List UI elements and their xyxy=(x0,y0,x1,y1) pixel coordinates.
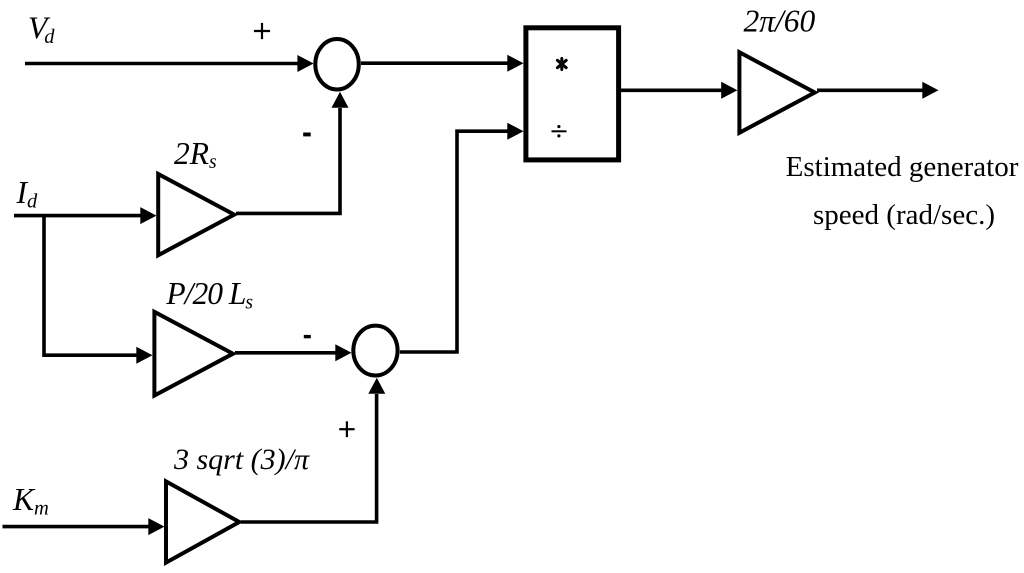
wire Id input xyxy=(14,214,141,218)
arrowhead into S1 xyxy=(297,55,313,72)
svg-text:3 sqrt (3)/π: 3 sqrt (3)/π xyxy=(173,443,310,476)
svg-text:2π/60: 2π/60 xyxy=(744,4,816,39)
plus sign at S2 xyxy=(339,421,354,437)
minus sign at S1 xyxy=(303,133,311,137)
gain triangle 2pi/60 xyxy=(739,52,814,133)
wire P/20Ls to summing junction S2 xyxy=(235,351,336,355)
wire S2 to box divide input xyxy=(400,131,508,352)
wire Vd to summing junction S1 xyxy=(25,62,299,66)
arrowhead into gain 2pi/60 xyxy=(721,82,737,99)
wire S1 to multiplier box xyxy=(361,61,508,65)
wire box to gain 2pi/60 xyxy=(621,89,722,93)
summing junction S2 xyxy=(353,326,397,376)
arrowhead into S2 xyxy=(335,344,351,361)
wire output xyxy=(817,89,923,93)
arrowhead output end xyxy=(922,82,938,99)
gain triangle P/20Ls xyxy=(154,312,233,396)
multiplier-divider box xyxy=(526,28,619,160)
arrowhead into S1 bottom xyxy=(332,92,349,108)
arrowhead into S2 bottom xyxy=(368,378,385,394)
asterisk symbol in box xyxy=(557,59,566,70)
svg-text:Estimated generator: Estimated generator xyxy=(786,151,1019,183)
gain triangle 3sqrt3/pi xyxy=(166,481,239,562)
minus sign at S2 xyxy=(304,335,311,338)
plus sign at S1 xyxy=(254,23,270,39)
svg-text:P/20 Ls: P/20 Ls xyxy=(165,276,253,313)
arrowhead into gain P/20Ls xyxy=(136,347,152,364)
summing junction S1 xyxy=(315,39,359,90)
wire 3sqrt3/pi output up to S2 xyxy=(241,394,377,522)
wire Km xyxy=(3,525,149,529)
wire 2Rs output up to S1 xyxy=(236,108,340,213)
arrowhead into box divide input xyxy=(507,123,523,140)
svg-text:speed (rad/sec.): speed (rad/sec.) xyxy=(813,199,995,231)
arrowhead into gain 3sqrt3/pi xyxy=(148,518,164,535)
arrowhead into gain 2Rs xyxy=(140,207,156,224)
arrowhead into box * input xyxy=(507,55,523,72)
divide symbol in box xyxy=(552,125,567,137)
gain triangle 2Rs xyxy=(158,174,234,255)
wire Id branch down to P/20Ls xyxy=(44,216,137,356)
